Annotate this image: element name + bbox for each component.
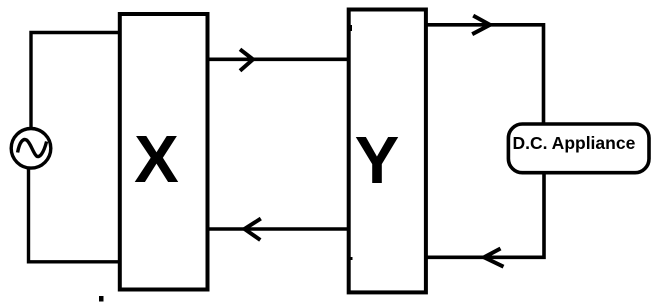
stray pen mark below X block [99, 296, 104, 302]
tick on X block right edge [206, 257, 209, 260]
arrow right on top-right wire [472, 16, 490, 35]
tick on Y block left edge lower [350, 257, 353, 260]
svg-text:Y: Y [355, 123, 400, 198]
block X (rectifier) [120, 14, 208, 290]
block Y (filter) [349, 10, 426, 293]
arrow left on lower middle wire [245, 219, 261, 240]
svg-text:X: X [134, 122, 179, 197]
wire top-left from source to X [31, 33, 119, 130]
wire top-right Y to appliance [426, 25, 544, 124]
wire bottom-right appliance to Y [426, 173, 544, 258]
wire lower middle Y to X [208, 227, 349, 231]
svg-text:D.C. Appliance: D.C. Appliance [512, 133, 635, 153]
wire upper middle X to Y [208, 57, 349, 61]
ac source V1 [11, 129, 51, 169]
wire bottom-left from source to X [29, 168, 120, 262]
dc appliance box [508, 124, 649, 173]
tick on Y block left edge [349, 25, 352, 31]
arrow left on bottom-right wire [484, 249, 504, 267]
arrow right on upper middle wire [240, 49, 253, 71]
